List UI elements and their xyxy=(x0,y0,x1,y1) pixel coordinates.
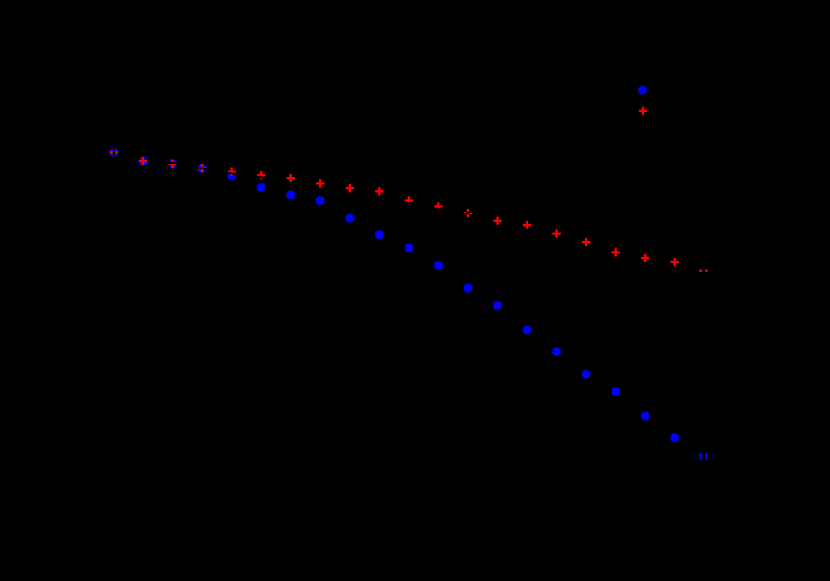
top axis spine xyxy=(114,70,704,72)
blue x-marker data point 10 of series 1 xyxy=(406,245,412,251)
blue x-marker data point 12 of series 1 xyxy=(465,285,471,291)
red plus-marker data point 8 of series 2 xyxy=(346,184,354,192)
black fit curve for series 2, drawn over markers (occludes marker parts) xyxy=(113,163,703,275)
red plus-marker data point 14 of series 2 xyxy=(523,221,531,229)
legend marker: blue x for series 1 xyxy=(640,87,646,93)
red plus-marker data point 17 of series 2 xyxy=(612,248,620,256)
red plus-marker data point 2 of series 2 xyxy=(168,160,176,168)
red plus-marker data point 20 of series 2 xyxy=(699,267,707,275)
blue x-marker data point 11 of series 1 xyxy=(435,262,441,268)
blue x-marker data point 9 of series 1 xyxy=(376,232,382,238)
red plus-marker data point 18 of series 2 xyxy=(641,254,649,262)
red plus-marker data point 6 of series 2 xyxy=(287,174,295,182)
red plus-marker data point 10 of series 2 xyxy=(405,196,413,204)
blue x-marker data point 20 of series 1 xyxy=(700,453,706,459)
blue x-marker data point 4 of series 1 xyxy=(229,173,235,179)
red plus-marker data point 19 of series 2 xyxy=(671,258,679,266)
red plus-marker data point 5 of series 2 xyxy=(257,171,265,179)
red plus-marker data point 0 of series 2 xyxy=(110,148,118,156)
blue x-marker data point 1 of series 1 xyxy=(140,158,146,164)
red plus-marker data point 12 of series 2 xyxy=(464,209,472,217)
blue x-marker data point 16 of series 1 xyxy=(583,371,589,377)
red plus-marker data point 13 of series 2 xyxy=(493,217,501,225)
red plus-marker data point 15 of series 2 xyxy=(552,229,560,237)
blue x-marker data point 0 of series 1 xyxy=(111,149,117,155)
blue x-marker data point 14 of series 1 xyxy=(524,327,530,333)
blue x-marker data point 13 of series 1 xyxy=(494,302,500,308)
blue x-marker data point 8 of series 1 xyxy=(347,215,353,221)
left axis spine xyxy=(113,71,115,511)
red plus-marker data point 4 of series 2 xyxy=(227,167,235,175)
blue x-marker data point 19 of series 1 xyxy=(672,435,678,441)
right axis spine xyxy=(702,71,705,511)
red plus-marker data point 16 of series 2 xyxy=(582,238,590,246)
red plus-marker data point 9 of series 2 xyxy=(375,187,383,195)
blue x-marker data point 3 of series 1 xyxy=(199,165,205,171)
blue x-marker data point 18 of series 1 xyxy=(642,413,648,419)
red plus-marker data point 1 of series 2 xyxy=(139,157,147,165)
legend marker: red plus for series 2 xyxy=(639,107,647,115)
red plus-marker data point 7 of series 2 xyxy=(316,179,324,187)
bottom axis spine xyxy=(114,510,704,512)
blue x-marker data point 6 of series 1 xyxy=(288,192,294,198)
blue x-marker data point 5 of series 1 xyxy=(258,184,264,190)
black fit curve for series 1, occludes blue markers in the overlap cluster xyxy=(100,158,261,177)
red plus-marker data point 11 of series 2 xyxy=(434,202,442,210)
blue x-marker data point 7 of series 1 xyxy=(317,198,323,204)
red plus-marker data point 3 of series 2 xyxy=(198,164,206,172)
blue x-marker data point 15 of series 1 xyxy=(554,348,560,354)
blue x-marker data point 2 of series 1 xyxy=(169,160,175,166)
blue x-marker data point 17 of series 1 xyxy=(613,388,619,394)
